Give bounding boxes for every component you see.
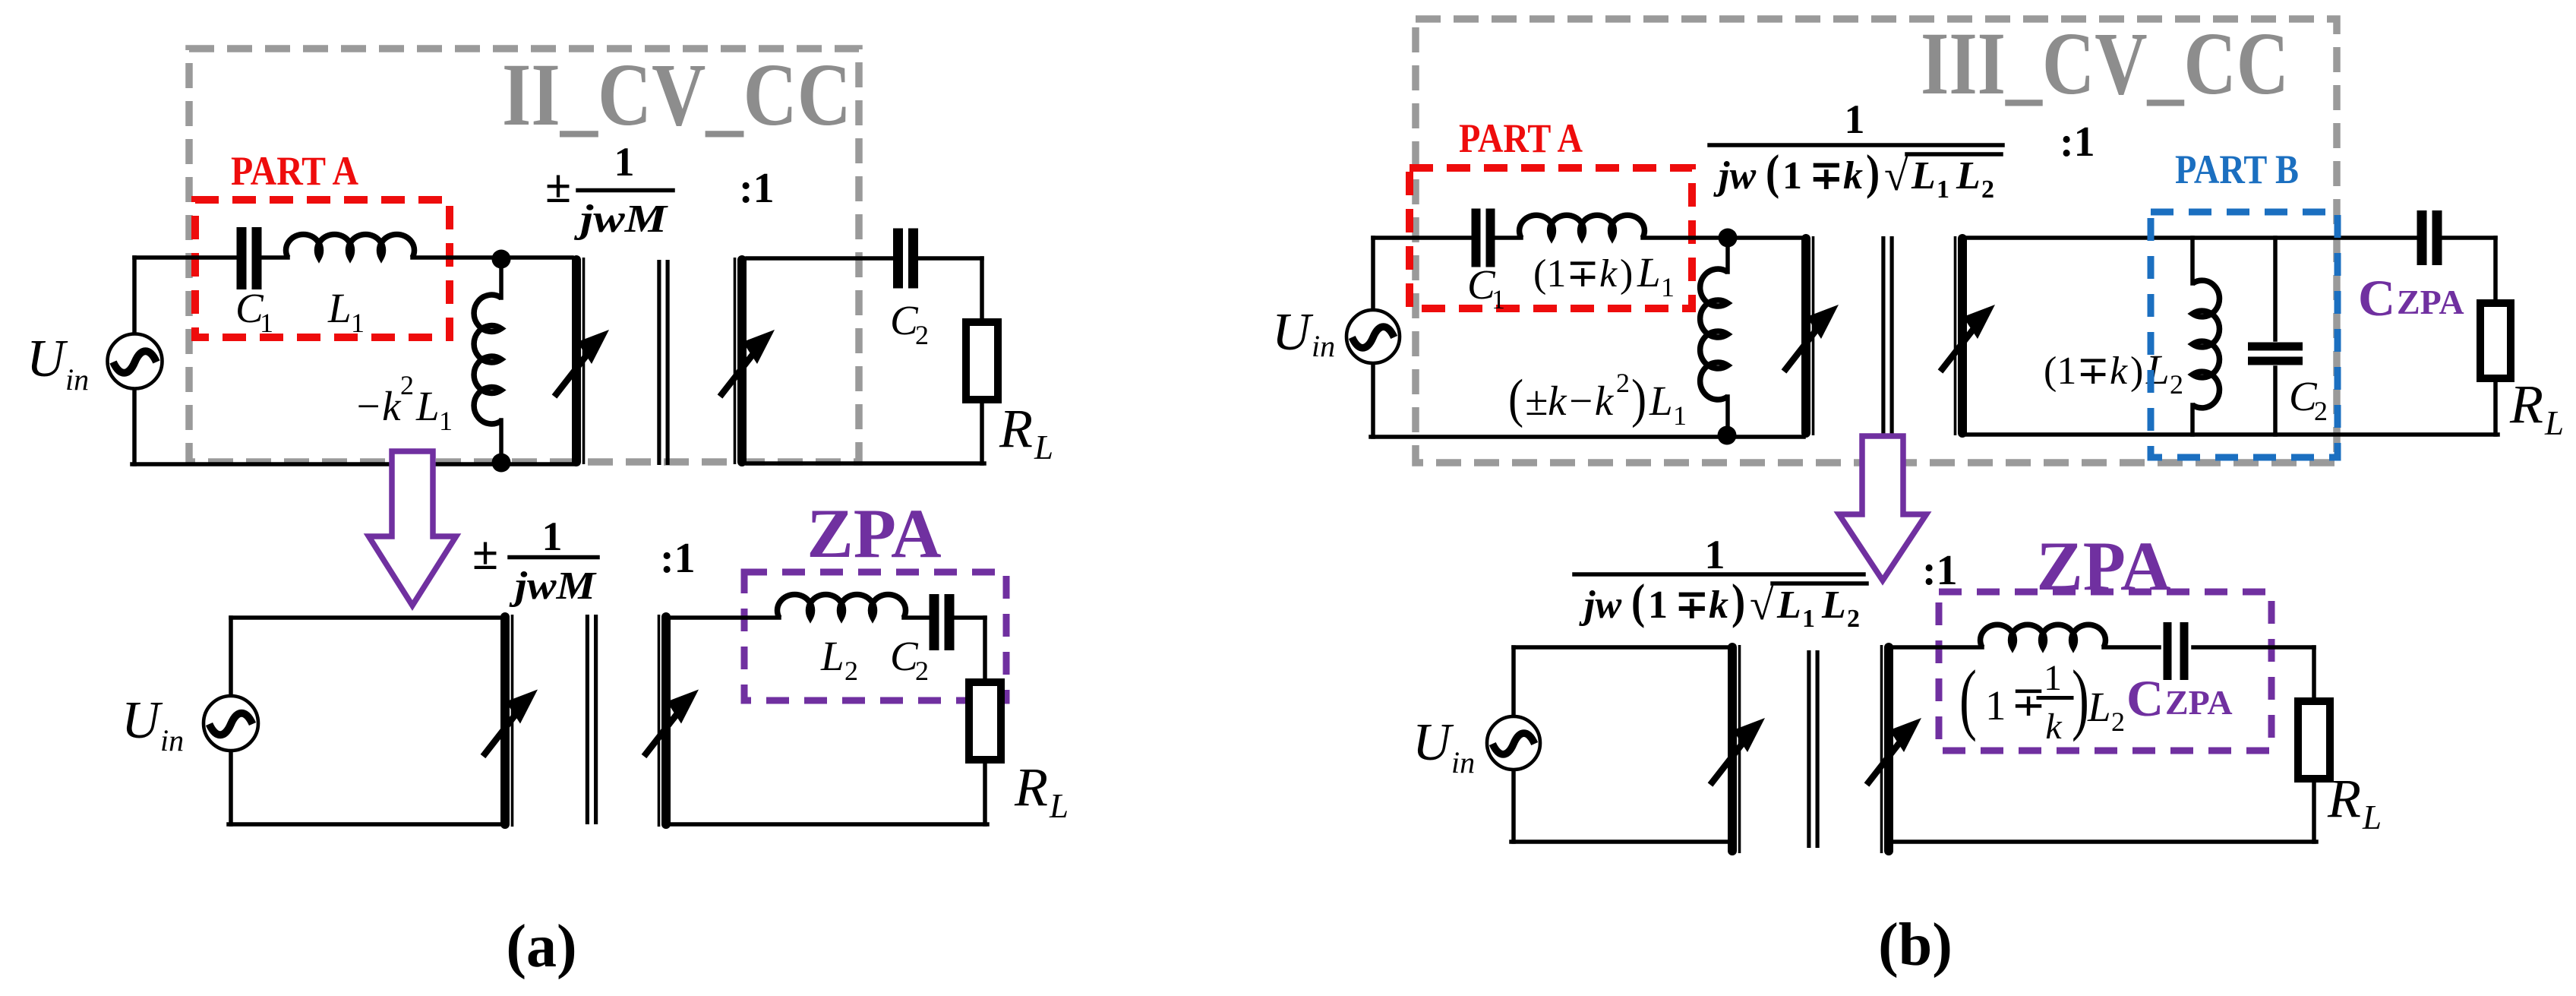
svg-text:PART A: PART A xyxy=(1459,115,1583,161)
svg-text:1: 1 xyxy=(2044,658,2062,698)
svg-text:jwM: jwM xyxy=(574,198,668,241)
svg-text:L: L xyxy=(2544,404,2564,442)
svg-text:C: C xyxy=(2358,269,2395,327)
svg-text:in: in xyxy=(65,362,89,397)
svg-text:): ) xyxy=(2072,655,2089,743)
svg-text:±: ± xyxy=(545,161,571,213)
svg-text:1: 1 xyxy=(614,139,635,185)
svg-text:2: 2 xyxy=(1847,605,1860,633)
svg-text:jw: jw xyxy=(1713,154,1756,198)
svg-text:L: L xyxy=(1956,154,1981,198)
svg-text:jwM: jwM xyxy=(509,564,597,608)
svg-text::1: :1 xyxy=(2060,119,2095,166)
svg-text:in: in xyxy=(160,723,184,757)
svg-text:1: 1 xyxy=(1492,284,1505,315)
svg-text:1: 1 xyxy=(1661,272,1675,302)
svg-text:1: 1 xyxy=(1802,605,1815,633)
svg-text:√: √ xyxy=(1750,580,1774,629)
svg-text:k: k xyxy=(2045,707,2063,747)
svg-text:in: in xyxy=(1451,745,1475,779)
svg-text::1: :1 xyxy=(739,165,775,212)
svg-text:2: 2 xyxy=(2111,707,2125,737)
svg-text:U: U xyxy=(1413,713,1454,772)
svg-text:U: U xyxy=(122,691,163,750)
svg-text:k: k xyxy=(1709,583,1728,627)
svg-text:III_CV_CC: III_CV_CC xyxy=(1921,14,2289,113)
svg-text:2: 2 xyxy=(1616,368,1630,398)
svg-text:2: 2 xyxy=(2314,396,2328,426)
svg-text:L: L xyxy=(415,383,440,429)
svg-text:(b): (b) xyxy=(1878,912,1953,979)
svg-text:1: 1 xyxy=(1937,175,1949,204)
svg-text:ZPA: ZPA xyxy=(807,495,941,572)
svg-text:L: L xyxy=(1776,583,1801,627)
svg-text:ZPA: ZPA xyxy=(2397,283,2464,321)
svg-text:1: 1 xyxy=(1673,400,1687,431)
svg-text:∓: ∓ xyxy=(2011,678,2046,725)
svg-text:L: L xyxy=(327,285,352,331)
svg-text:L: L xyxy=(1637,249,1661,296)
svg-text:R: R xyxy=(999,398,1033,459)
svg-text:(a): (a) xyxy=(506,913,576,980)
svg-text:): ) xyxy=(2130,349,2143,393)
svg-text:1: 1 xyxy=(1845,96,1865,142)
svg-text:L: L xyxy=(1821,583,1846,627)
svg-text:±k−k: ±k−k xyxy=(1525,378,1615,424)
svg-text:1: 1 xyxy=(1985,682,2006,729)
svg-text:L: L xyxy=(1911,154,1936,198)
svg-text:∓: ∓ xyxy=(1675,583,1709,627)
svg-text:): ) xyxy=(1866,145,1880,199)
svg-text:(: ( xyxy=(1508,368,1523,428)
svg-text:R: R xyxy=(2327,768,2361,829)
svg-text:2: 2 xyxy=(400,370,414,400)
svg-text:±: ± xyxy=(472,528,498,580)
svg-text:jw: jw xyxy=(1579,583,1621,627)
svg-text:1: 1 xyxy=(439,406,453,436)
svg-text:2: 2 xyxy=(844,656,858,686)
svg-text:2: 2 xyxy=(915,656,929,686)
svg-text:(1∓: (1∓ xyxy=(1533,252,1599,296)
svg-text:1: 1 xyxy=(1648,583,1668,627)
svg-text:−k: −k xyxy=(354,383,402,429)
svg-text:1: 1 xyxy=(260,308,273,338)
svg-text:II_CV_CC: II_CV_CC xyxy=(502,45,851,144)
svg-text:1: 1 xyxy=(1705,532,1725,577)
svg-text:2: 2 xyxy=(915,320,929,350)
svg-text:2: 2 xyxy=(1981,175,1994,204)
svg-text::1: :1 xyxy=(1922,547,1958,594)
svg-text:1: 1 xyxy=(542,514,563,559)
svg-text:L: L xyxy=(1034,428,1053,466)
svg-text:1: 1 xyxy=(351,308,365,338)
svg-text:): ) xyxy=(1631,368,1646,428)
svg-text:L: L xyxy=(1049,787,1069,825)
svg-text:(: ( xyxy=(1766,145,1779,199)
svg-text:ZPA: ZPA xyxy=(2165,683,2233,722)
svg-text:1: 1 xyxy=(1782,154,1802,198)
svg-text:k: k xyxy=(1599,252,1618,296)
svg-text::1: :1 xyxy=(660,535,696,582)
svg-text:C: C xyxy=(2126,669,2164,727)
svg-text:R: R xyxy=(1014,757,1048,817)
svg-text:U: U xyxy=(27,330,68,388)
svg-text:R: R xyxy=(2509,374,2543,435)
svg-text:∓: ∓ xyxy=(1810,154,1843,198)
svg-text:k: k xyxy=(1843,154,1863,198)
svg-text:k: k xyxy=(2110,349,2128,393)
svg-text:(: ( xyxy=(1631,574,1645,628)
svg-text:(: ( xyxy=(1959,655,1977,743)
svg-text:2: 2 xyxy=(2170,369,2183,400)
svg-text:U: U xyxy=(1272,303,1314,362)
svg-text:(1∓: (1∓ xyxy=(2044,349,2110,393)
svg-text:PART B: PART B xyxy=(2175,147,2299,192)
svg-text:√: √ xyxy=(1884,150,1908,200)
svg-text:L: L xyxy=(2087,684,2111,730)
svg-text:L: L xyxy=(1649,378,1673,424)
svg-text:L: L xyxy=(820,633,844,679)
svg-text:in: in xyxy=(1312,329,1335,363)
svg-text:PART A: PART A xyxy=(231,148,358,194)
svg-text:): ) xyxy=(1620,252,1633,296)
svg-text:L: L xyxy=(2362,798,2382,836)
svg-text:): ) xyxy=(1732,574,1745,628)
